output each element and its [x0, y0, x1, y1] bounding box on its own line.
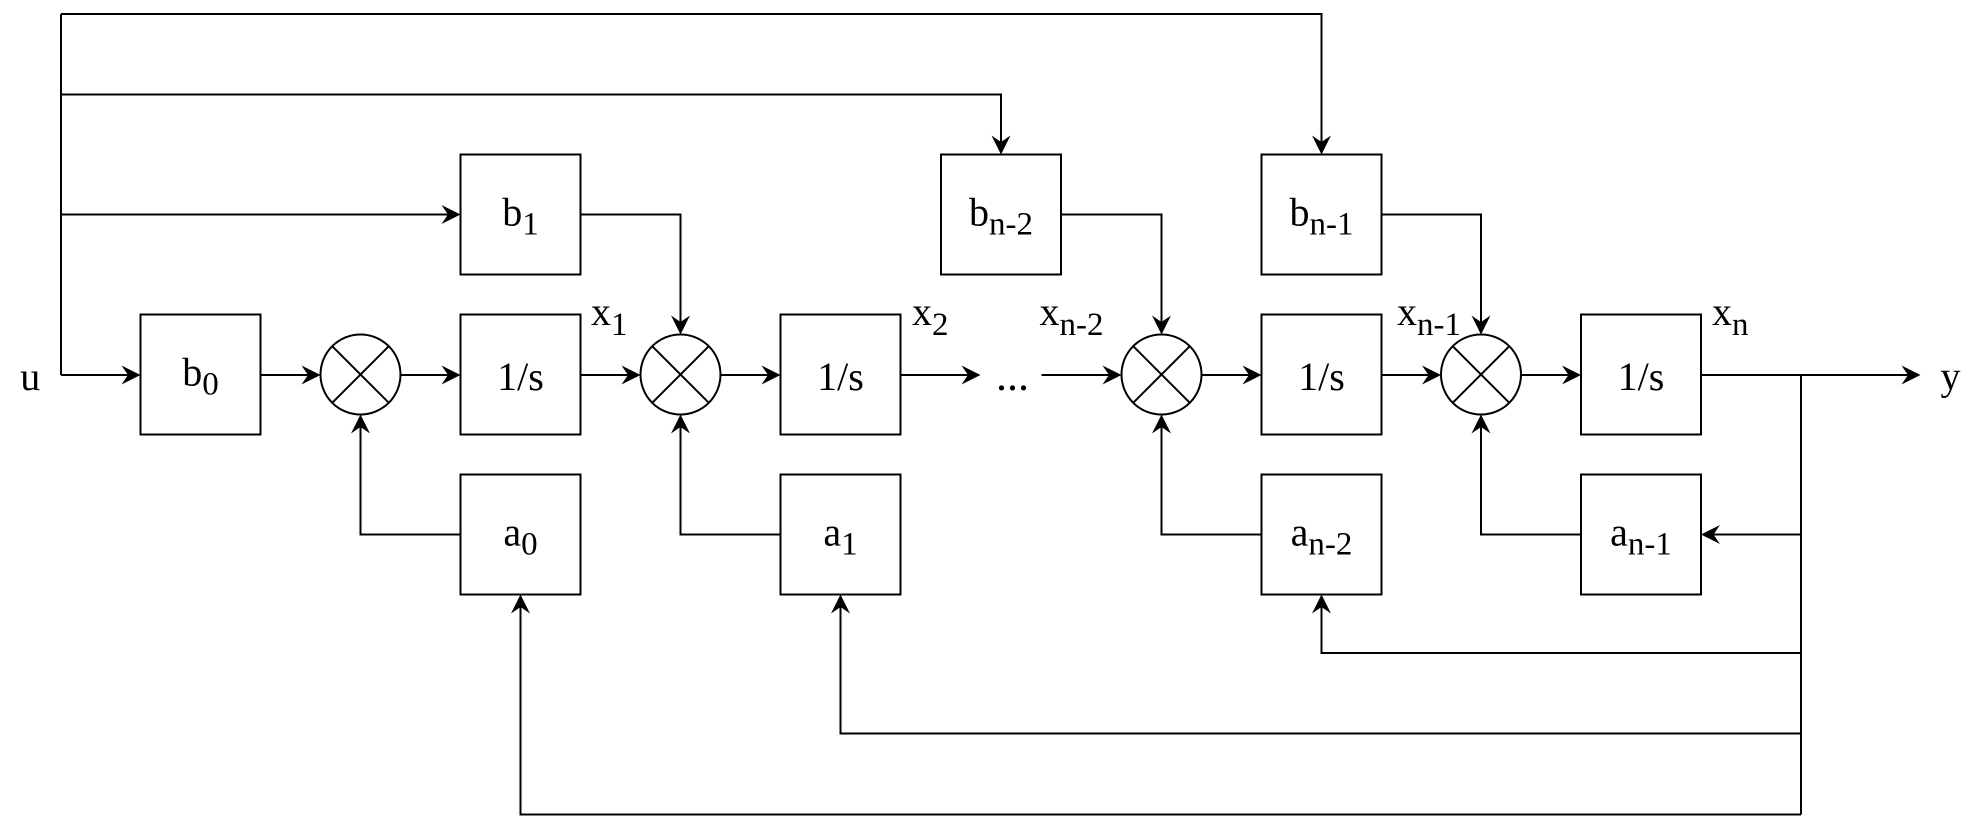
svg-text:1/s: 1/s: [1618, 354, 1665, 399]
wire b_1 output to S2 top: [581, 215, 681, 323]
svg-text:bn-2: bn-2: [969, 190, 1033, 243]
svg-text:bn-1: bn-1: [1290, 190, 1354, 243]
svg-text:1/s: 1/s: [1298, 354, 1345, 399]
block bn-1: [1262, 155, 1382, 275]
summing junction S4: [1441, 335, 1521, 415]
wire second branch to b_n-2: [61, 95, 1001, 143]
wire integrator 1 to sum S2: [581, 374, 629, 376]
wire feedback to a_0: [521, 607, 1802, 815]
integrator 1/s block 2: [781, 315, 901, 435]
svg-text:a1: a1: [823, 510, 857, 563]
wire S3 to integrator 3: [1202, 374, 1249, 376]
wire feedback to a_n-1: [1714, 534, 1802, 536]
integrator 1/s block 3: [1262, 315, 1382, 435]
wire feedback vertical trunk from y: [1800, 375, 1802, 815]
svg-text:y: y: [1941, 354, 1961, 399]
wire a_n-2 output to S3 bottom: [1162, 427, 1262, 535]
wire integrator 3 to sum S4: [1382, 374, 1429, 376]
svg-text:b0: b0: [182, 350, 219, 403]
svg-text:an-2: an-2: [1291, 510, 1353, 563]
wire third branch to b_1: [61, 214, 448, 216]
svg-text:1/s: 1/s: [497, 354, 544, 399]
wire feedback to a_n-2: [1322, 607, 1802, 653]
svg-text:an-1: an-1: [1610, 510, 1672, 563]
wire S4 to integrator 4: [1521, 374, 1569, 376]
wire dots to sum S3: [1042, 374, 1110, 376]
svg-text:x1: x1: [591, 289, 628, 343]
wire a_0 output to S1 bottom: [361, 427, 461, 535]
wire b_n-2 output to S3 top: [1061, 215, 1162, 323]
block bn-2: [941, 155, 1061, 275]
wire b_n-1 output to S4 top: [1382, 215, 1482, 323]
wire a_n-1 output to S4 bottom: [1481, 427, 1581, 535]
svg-text:xn-2: xn-2: [1040, 289, 1104, 343]
svg-text:b1: b1: [502, 190, 539, 243]
block b1: [461, 155, 581, 275]
wire top branch to b_n-1: [61, 14, 1322, 142]
wire integrator 4 to output y: [1701, 374, 1908, 376]
wire S1 to integrator 1: [401, 374, 448, 376]
summing junction S1: [321, 335, 401, 415]
summing junction S2: [641, 335, 721, 415]
svg-text:xn-1: xn-1: [1397, 289, 1461, 343]
wire input vertical trunk from u: [60, 14, 62, 375]
svg-text:x2: x2: [912, 289, 949, 343]
wire S2 to integrator 2: [721, 374, 768, 376]
integrator 1/s block 1: [461, 315, 581, 435]
wire feedback to a_1: [841, 607, 1802, 734]
wire a_1 output to S2 bottom: [681, 427, 781, 535]
wire integrator 2 to dots: [901, 374, 969, 376]
wire b_0 to sum S1: [261, 374, 309, 376]
block b0: [141, 315, 261, 435]
integrator 1/s block 4: [1581, 315, 1701, 435]
summing junction S3: [1122, 335, 1202, 415]
svg-text:...: ...: [996, 351, 1029, 400]
wire u to b_0: [61, 374, 128, 376]
block an-2: [1262, 475, 1382, 595]
block a0: [461, 475, 581, 595]
block an-1: [1581, 475, 1701, 595]
svg-text:a0: a0: [503, 510, 537, 563]
svg-text:1/s: 1/s: [817, 354, 864, 399]
svg-text:u: u: [20, 354, 40, 399]
svg-text:xn: xn: [1712, 289, 1749, 343]
block a1: [781, 475, 901, 595]
